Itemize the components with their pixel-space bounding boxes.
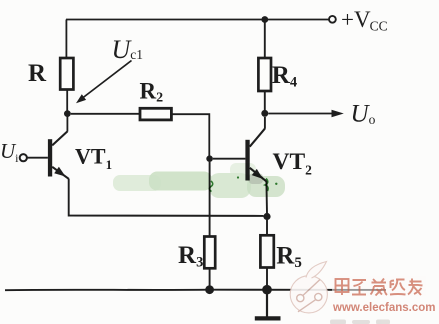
svg-text:R3: R3 — [178, 242, 203, 271]
wire VT2 emitter vertical — [265, 181, 268, 213]
svg-text:R: R — [28, 60, 47, 87]
svg-text:www.elecfans.com: www.elecfans.com — [332, 302, 435, 314]
node VT2 base — [206, 155, 213, 162]
wire top rail to R4 — [264, 20, 266, 59]
svg-text:R5: R5 — [276, 243, 302, 272]
svg-text:VT1: VT1 — [75, 144, 112, 173]
wire VT1 base — [27, 157, 48, 159]
node output tap — [261, 110, 268, 117]
watermark green smear — [113, 163, 285, 198]
arrow output Uo — [268, 110, 344, 118]
watermark bottom edge remnants — [330, 320, 390, 324]
wire node to R3 — [209, 162, 211, 236]
node R5 rail junction — [262, 285, 272, 295]
wire VT1 collector to node Uc1 — [66, 117, 68, 132]
resistor R3 — [204, 237, 215, 269]
watermark text backdrop — [332, 276, 426, 296]
svg-text:Uo: Uo — [351, 101, 376, 128]
wire R bottom to node — [66, 90, 68, 112]
ground — [255, 294, 281, 318]
wire VT2 collector up — [264, 117, 266, 129]
transistor VT2 — [245, 129, 266, 182]
wire R4 bottom to node — [264, 91, 266, 110]
terminal Ui — [20, 154, 27, 161]
wire top rail — [66, 19, 329, 21]
node R3 rail junction — [205, 285, 214, 294]
wire node Uc1 to R2 — [71, 113, 140, 115]
wire R5 bottom to rail — [266, 268, 268, 285]
terminal +Vcc — [329, 16, 336, 23]
wire VT1 emitter down and across to VT2 emitter — [69, 179, 264, 216]
wire left drop from top rail to R — [65, 20, 67, 59]
transistor VT1 — [48, 131, 69, 178]
svg-text:R2: R2 — [140, 79, 164, 106]
annotation arrow from Uc1 to node — [76, 61, 132, 104]
resistor R2 — [140, 108, 171, 120]
svg-text:R4: R4 — [272, 62, 297, 91]
node VT2 emitter junction — [263, 213, 270, 220]
wire VT2 base — [213, 158, 246, 160]
wire R3 bottom to rail — [209, 268, 211, 286]
resistor R5 — [260, 235, 273, 267]
svg-text:+VCC: +VCC — [341, 7, 388, 34]
node Uc1 — [64, 110, 71, 117]
watermark text elecfans cjk — [336, 279, 423, 296]
resistor R — [60, 58, 73, 90]
node top rail junction — [261, 16, 268, 23]
svg-text:Ui: Ui — [0, 139, 19, 165]
watermark logo balloon — [290, 262, 327, 313]
resistor R4 — [258, 58, 271, 91]
wire R2 right to VT2 base node — [171, 114, 209, 156]
wire bottom rail — [5, 289, 386, 292]
svg-text:Uc1: Uc1 — [112, 35, 144, 64]
svg-text:VT2: VT2 — [273, 149, 313, 178]
wire junction to R5 — [266, 220, 268, 235]
